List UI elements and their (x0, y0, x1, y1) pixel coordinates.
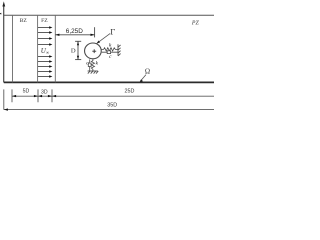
right damper c (102, 51, 118, 53)
svg-text:BZ: BZ (20, 18, 28, 24)
domain bottom edge (4, 81, 214, 83)
bottom damper c (89, 59, 91, 71)
domain top edge (4, 14, 214, 16)
leader to Gamma (96, 33, 110, 43)
bottom wall with hatching (88, 71, 99, 74)
svg-text:D: D (71, 47, 76, 54)
svg-text:Γ: Γ (110, 26, 115, 36)
svg-text:PZ: PZ (191, 20, 200, 26)
row 1 arrowheads (12, 95, 56, 97)
svg-text:Ω: Ω (145, 67, 150, 75)
x-axis arrowhead pointing left at image edge (0, 13, 1, 15)
svg-text:25D: 25D (124, 88, 134, 94)
leader to Omega (139, 75, 146, 83)
zone line L2 (12, 15, 14, 82)
right spring k (102, 48, 119, 51)
inflow arrows (38, 26, 53, 78)
svg-text:5D: 5D (23, 89, 30, 95)
zone line L3 (37, 15, 39, 82)
center cross (92, 49, 96, 53)
lower dimension row 2 (4, 89, 214, 109)
dimension 6,25D line (55, 27, 94, 37)
right wall with hatching (118, 44, 121, 56)
lower dimension row 1: ticks (12, 89, 214, 102)
svg-text:6,25D: 6,25D (66, 28, 83, 35)
zone line L4 (54, 15, 56, 82)
y-axis arrow at domain left edge (2, 1, 5, 82)
dimension D (cylinder diameter) (75, 41, 81, 59)
cylinder (circle) (85, 43, 102, 59)
bottom spring k (91, 59, 94, 71)
svg-text:35D: 35D (107, 102, 117, 108)
svg-text:3D: 3D (41, 90, 48, 96)
svg-text:FZ: FZ (41, 18, 48, 24)
